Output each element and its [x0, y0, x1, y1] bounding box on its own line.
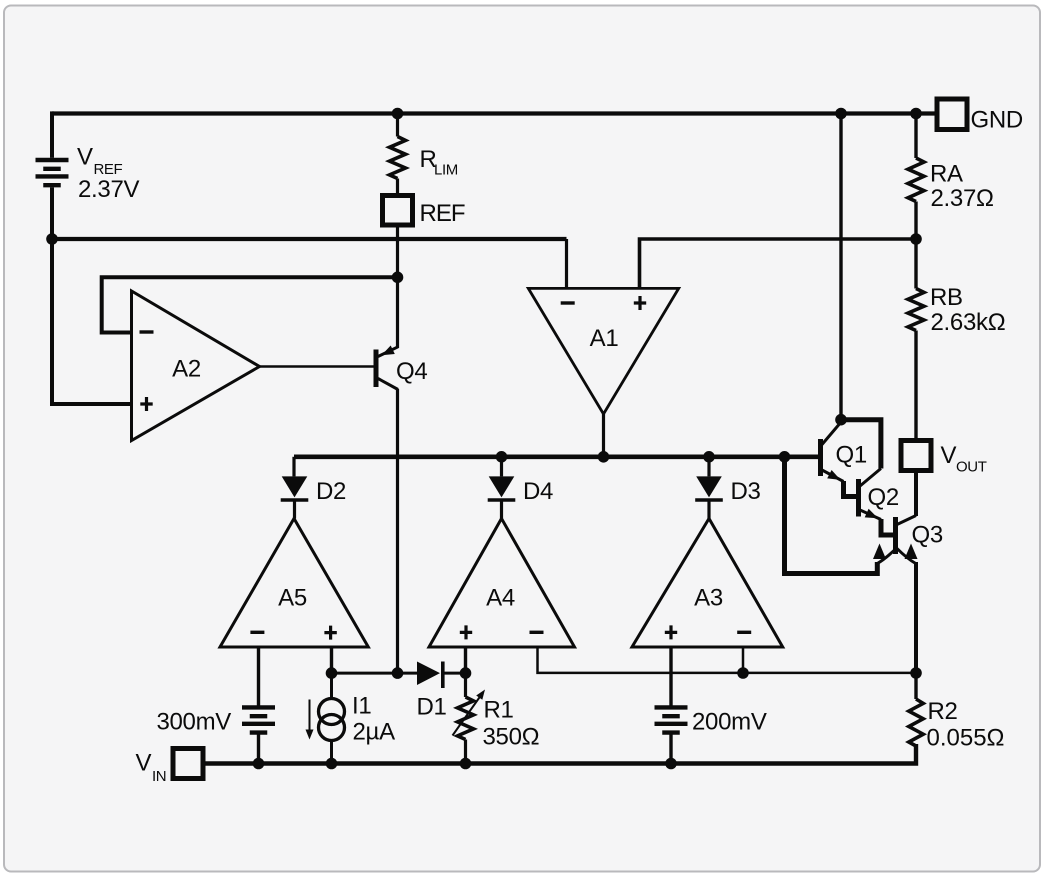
- current source I1: [319, 699, 345, 741]
- op-amp A2: [132, 291, 260, 441]
- svg-text:2µA: 2µA: [353, 719, 396, 746]
- wire 200mV to bottom bus: [669, 735, 672, 764]
- A3 plus sign: [665, 625, 677, 639]
- node VREF-A2 junction: [46, 233, 58, 245]
- svg-text:Q4: Q4: [396, 358, 427, 385]
- svg-text:350Ω: 350Ω: [483, 724, 540, 751]
- wire R2 top: [914, 673, 917, 699]
- wire A2 feedback: [102, 277, 398, 332]
- wire Q1 emitter to Q2 base: [844, 481, 857, 497]
- diode D2: [281, 476, 309, 500]
- resistor R1: [458, 697, 474, 740]
- node 200mV junction: [665, 758, 677, 770]
- svg-text:R1: R1: [484, 697, 514, 724]
- wire Q4 emitter up: [396, 277, 399, 348]
- svg-text:REF: REF: [420, 200, 465, 227]
- svg-text:200mV: 200mV: [692, 709, 767, 736]
- pad VOUT: [901, 441, 931, 471]
- I1 direction arrow: [309, 700, 311, 731]
- wire A1 output bus: [294, 454, 821, 459]
- svg-text:300mV: 300mV: [156, 709, 231, 736]
- node D4 junction: [496, 451, 508, 463]
- wire Q1-Q2 collector tie: [841, 420, 881, 469]
- svg-text:0.055Ω: 0.055Ω: [927, 725, 1005, 752]
- A3 minus sign: [737, 631, 751, 634]
- wire A5 minus to 300mV: [257, 647, 260, 706]
- svg-text:R2: R2: [928, 698, 958, 725]
- svg-text:Q3: Q3: [912, 522, 943, 549]
- pad VIN: [173, 749, 203, 779]
- svg-text:Q2: Q2: [868, 484, 899, 511]
- wire A4 minus to R2 node: [538, 647, 917, 673]
- A1 plus sign: [634, 296, 646, 310]
- wire Q3 right emitter to R2: [914, 562, 918, 673]
- svg-text:IN: IN: [152, 768, 166, 785]
- svg-text:D3: D3: [731, 478, 761, 505]
- wire RB top: [914, 239, 917, 289]
- node D3 junction: [703, 451, 715, 463]
- svg-text:V: V: [941, 442, 957, 469]
- wire D4 anode: [500, 457, 503, 477]
- A5 plus sign: [324, 626, 336, 640]
- transistor Q4: [374, 346, 399, 390]
- svg-text:D4: D4: [523, 478, 553, 505]
- node A5plus-I1-D1 junction: [326, 667, 338, 679]
- node A1 output junction: [598, 451, 610, 463]
- wire R1 top: [464, 673, 467, 697]
- wire D3 cathode to A3: [707, 502, 710, 519]
- svg-text:LIM: LIM: [434, 162, 458, 179]
- node Q4 collector junction: [392, 667, 404, 679]
- svg-text:OUT: OUT: [956, 459, 987, 476]
- wire VREF bottom stem: [50, 187, 54, 239]
- diode D1: [417, 662, 443, 689]
- node D1-R1-A4plus junction: [460, 667, 472, 679]
- node A3 minus junction: [737, 667, 749, 679]
- node top-Q1Q2 drop junction: [835, 108, 847, 120]
- wire A2 output to Q4 base: [260, 365, 374, 368]
- wire A1 plus input / mid bus right: [640, 239, 917, 288]
- wire REF pad to feedback node: [396, 225, 399, 277]
- battery 300mV: [242, 707, 275, 732]
- diode D4: [488, 476, 516, 500]
- op-amp A1: [528, 288, 678, 414]
- transistor Q2: [856, 469, 881, 520]
- wire RB to VOUT pad: [914, 331, 917, 441]
- wire GND bus to Q1-Q2 collectors: [839, 114, 842, 420]
- resistor RLIM: [390, 137, 406, 179]
- svg-text:A2: A2: [172, 356, 201, 383]
- wire RA top: [914, 114, 917, 159]
- svg-text:A5: A5: [278, 585, 307, 612]
- node Q1-Q2 collector junction: [835, 414, 847, 426]
- wire I1 to bottom bus: [330, 741, 333, 764]
- battery VREF 2.37V: [36, 160, 69, 185]
- svg-text:2.37V: 2.37V: [78, 176, 140, 203]
- svg-text:V: V: [77, 144, 93, 171]
- wire A1 minus input: [565, 239, 568, 288]
- wire 300mV to bottom bus: [257, 735, 260, 764]
- battery 200mV: [655, 707, 688, 732]
- node 300mV junction: [253, 758, 265, 770]
- wire D4 cathode to A4: [500, 502, 503, 519]
- svg-text:Q1: Q1: [836, 442, 867, 469]
- node A2 feedback junction: [392, 272, 404, 284]
- wire VOUT pad to Q3 collector: [914, 471, 918, 517]
- wire Q3 left emitter loop: [785, 459, 878, 574]
- A2 minus sign: [140, 330, 154, 333]
- svg-text:A1: A1: [590, 325, 619, 352]
- svg-text:RA: RA: [930, 161, 963, 188]
- svg-text:2.63kΩ: 2.63kΩ: [931, 309, 1006, 336]
- wire A3 minus input: [742, 647, 745, 673]
- wire VREF top stem: [50, 111, 54, 157]
- A4 minus sign: [530, 631, 544, 634]
- transistor Q3: [873, 516, 918, 564]
- A1 minus sign: [561, 301, 575, 304]
- op-amp A5: [220, 519, 368, 648]
- svg-text:GND: GND: [971, 107, 1023, 134]
- node Q1 base / Q3 emitter loop junction: [779, 451, 791, 463]
- wire R1 bottom: [464, 740, 467, 764]
- wire Q4 collector down: [396, 389, 399, 673]
- wire bottom bus VIN: [203, 744, 916, 764]
- node RA-RB junction: [910, 233, 922, 245]
- resistor RA: [908, 158, 924, 202]
- wire D3 anode: [707, 457, 710, 477]
- wire RA bottom: [914, 202, 917, 240]
- wire I1 top stem: [330, 673, 333, 700]
- op-amp A4: [429, 519, 575, 648]
- node top-RLIM junction: [392, 108, 404, 120]
- node I1 junction: [326, 758, 338, 770]
- svg-text:D1: D1: [417, 694, 447, 721]
- wire Q2 emitter to Q3 base: [881, 519, 893, 535]
- wire A3 plus to 200mV: [669, 647, 672, 706]
- svg-text:A3: A3: [694, 585, 723, 612]
- wire D1 cathode to R1 node: [444, 672, 466, 675]
- svg-text:RB: RB: [930, 284, 963, 311]
- svg-text:A4: A4: [486, 585, 515, 612]
- node top-RA junction: [910, 108, 922, 120]
- resistor R2: [909, 699, 923, 746]
- wire D2 anode: [292, 457, 295, 477]
- wire RLIM to REF pad: [396, 179, 399, 196]
- pad REF: [383, 196, 413, 226]
- svg-text:2.37Ω: 2.37Ω: [931, 185, 994, 212]
- op-amp A3: [632, 519, 783, 648]
- svg-text:D2: D2: [316, 478, 346, 505]
- diode D3: [695, 476, 723, 500]
- node R2 top junction: [910, 667, 922, 679]
- wire A2 plus input: [52, 239, 131, 404]
- wire to D1 anode: [332, 672, 418, 675]
- svg-text:V: V: [136, 750, 152, 777]
- node R1 junction: [460, 758, 472, 770]
- pad GND: [937, 99, 967, 130]
- wire A4 plus input: [464, 647, 467, 673]
- A4 plus sign: [460, 625, 472, 639]
- A2 plus sign: [140, 397, 152, 411]
- wire A1 output: [602, 414, 605, 457]
- svg-text:I1: I1: [352, 693, 371, 720]
- wire top bus: [52, 111, 937, 115]
- resistor RB: [908, 289, 924, 331]
- transistor Q1: [818, 422, 844, 482]
- wire D2 cathode to A5: [293, 502, 296, 519]
- wire RLIM top: [396, 114, 399, 137]
- wire mid bus left: [50, 237, 567, 241]
- A5 minus sign: [250, 631, 264, 634]
- wire A5 plus input: [330, 647, 333, 673]
- R1 variable arrow: [453, 695, 482, 736]
